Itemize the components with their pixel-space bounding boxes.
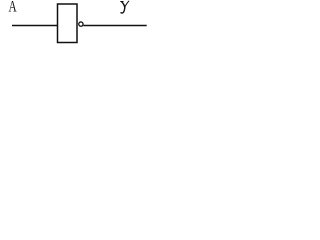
svg-text:A: A	[9, 0, 18, 16]
inverter gate U1 body	[58, 4, 78, 43]
wire output Y	[83, 25, 146, 27]
inversion bubble	[79, 22, 83, 26]
wire input A	[12, 25, 58, 27]
input label A	[9, 0, 18, 16]
output label Y	[121, 1, 129, 13]
